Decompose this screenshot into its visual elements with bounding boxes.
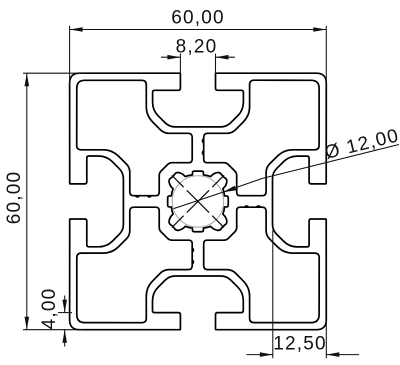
arrowhead 12,50 left: [260, 352, 273, 357]
arrowhead 4,00 upper: [62, 300, 67, 313]
svg-text:12,50: 12,50: [273, 333, 327, 354]
web wall nubs: [202, 139, 203, 144]
arrowhead 8,20 right: [216, 55, 229, 60]
arrowhead 60,00 top right: [313, 27, 326, 32]
bottom-left corner cavity: [77, 207, 192, 322]
dimension 8,20: extension + dimension lines: [179, 54, 181, 75]
bore nominal circle (Ø12): [172, 176, 223, 227]
leader diameter segment: [174, 192, 223, 208]
top-left corner cavity: [77, 80, 192, 195]
dimension 4,00: extension tick + lines: [58, 312, 72, 314]
dimension 60,00 top: extension + dimension lines: [69, 26, 71, 85]
screw-channel ticks: [213, 216, 224, 227]
arrowhead 8,20 left: [167, 55, 180, 60]
arrowhead leader Ø 12,00: [222, 186, 236, 193]
arrowhead 12,50 right: [326, 352, 339, 357]
arrowhead 60,00 top left: [70, 27, 83, 32]
svg-text:60,00: 60,00: [4, 171, 25, 225]
svg-text:8,20: 8,20: [176, 36, 218, 57]
top-right corner cavity: [204, 80, 319, 195]
bottom-right corner cavity: [204, 207, 319, 322]
arrowhead 60,00 left top: [25, 73, 30, 86]
centre mark X: [187, 191, 209, 213]
centre bore gear-shaped outline: [168, 171, 229, 232]
dimension 60,00 left: extension + dimension lines: [23, 72, 85, 74]
dimension 12,50: extension + dimension lines: [272, 230, 274, 358]
svg-text:60,00: 60,00: [171, 8, 225, 29]
profile outer contour with 4 T-slot openings: [70, 73, 327, 330]
svg-text:4,00: 4,00: [39, 288, 60, 330]
arrowhead 4,00 lower: [62, 330, 67, 343]
leader line to Ø 12,00 text: [222, 145, 399, 193]
arrowhead 60,00 left bottom: [25, 317, 30, 330]
